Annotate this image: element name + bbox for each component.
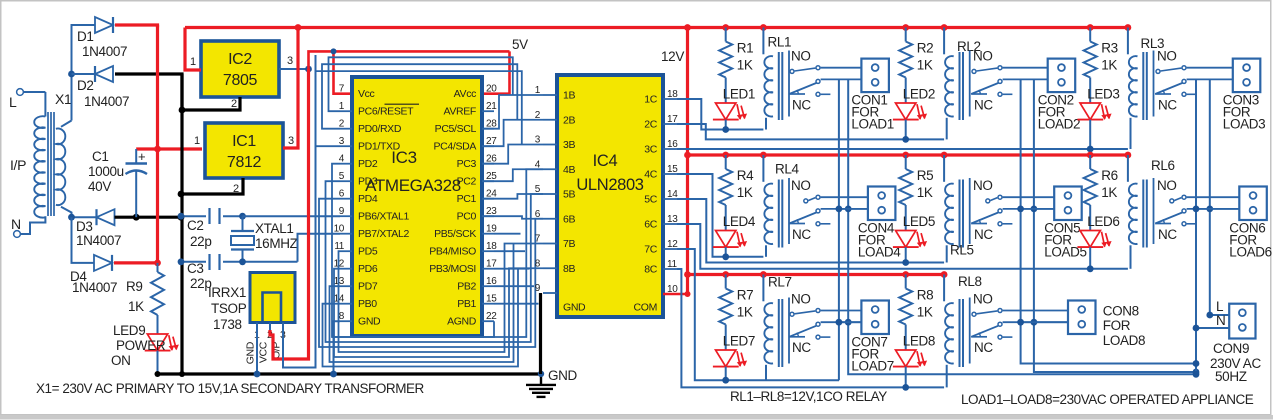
svg-text:D1: D1 <box>77 29 94 44</box>
svg-text:NO: NO <box>791 178 811 193</box>
wire D2 cathode to black bus <box>115 74 182 110</box>
node IRRX1 gnd <box>254 371 261 378</box>
terminal N <box>11 216 21 237</box>
svg-text:NC: NC <box>792 340 811 355</box>
svg-text:PD6: PD6 <box>358 263 378 275</box>
node LED7 bottom <box>722 377 729 384</box>
wire secondary top to D1/D2 node <box>61 121 72 127</box>
capacitor C1 <box>88 149 147 217</box>
svg-text:1N4007: 1N4007 <box>76 233 121 248</box>
transformer X1 core <box>48 112 54 216</box>
svg-text:PC5/SCL: PC5/SCL <box>435 123 477 135</box>
svg-text:IC4: IC4 <box>593 152 618 170</box>
relay RL2 coil <box>944 28 981 140</box>
node RL1 top <box>760 24 767 31</box>
capacitor C2 <box>181 208 243 249</box>
IC2 pin 1 wire <box>185 28 201 71</box>
svg-text:I/P: I/P <box>10 157 26 173</box>
wire bundle IC3 pins under chip <box>319 164 543 367</box>
wire ULN 7C to relay module <box>677 249 839 380</box>
wire IC3 AGND <box>332 321 494 337</box>
node +V at D4 <box>154 260 161 267</box>
svg-text:7805: 7805 <box>223 72 258 89</box>
node LED4 bottom <box>722 253 729 260</box>
svg-text:NO: NO <box>973 178 993 193</box>
regulator IC1 7812 <box>205 123 283 178</box>
svg-text:L: L <box>9 94 17 110</box>
resistor R9 <box>126 263 164 315</box>
svg-text:GND: GND <box>548 368 578 383</box>
svg-text:IRRX1: IRRX1 <box>208 285 246 300</box>
svg-text:22p: 22p <box>190 234 211 249</box>
label 5V <box>512 37 528 52</box>
wire IC3 GND <box>334 321 341 374</box>
resistor R4 <box>719 155 754 205</box>
diode D4 <box>70 255 117 295</box>
wire RL7 NO to CON7 <box>821 310 862 312</box>
wire secondary bottom to D3 <box>61 207 97 217</box>
svg-text:11: 11 <box>667 259 677 270</box>
LED3 <box>1077 78 1119 150</box>
svg-text:LED2: LED2 <box>903 87 935 102</box>
svg-text:PC2: PC2 <box>457 176 477 188</box>
wire RL4 NO to CON4 <box>821 196 868 198</box>
svg-text:ULN2803: ULN2803 <box>576 176 643 194</box>
svg-text:PB6/XTAL1: PB6/XTAL1 <box>358 211 409 223</box>
node R7 top <box>722 271 729 278</box>
svg-text:PD2: PD2 <box>358 158 378 170</box>
svg-text:LOAD7: LOAD7 <box>851 359 894 374</box>
wire L to transformer <box>24 91 46 93</box>
LED1 <box>713 78 755 130</box>
relay RL3 contacts <box>1154 49 1197 117</box>
regulator IC2 7805 <box>201 41 279 97</box>
svg-text:LED4: LED4 <box>723 214 756 229</box>
svg-text:LOAD8: LOAD8 <box>1103 333 1146 348</box>
svg-text:XTAL1: XTAL1 <box>255 221 294 236</box>
node rail at IC1 output <box>295 24 302 31</box>
svg-text:AVcc: AVcc <box>454 88 476 100</box>
wire RL3 pole to CON3 <box>1187 78 1233 80</box>
svg-text:GND: GND <box>563 302 586 314</box>
svg-text:RL4: RL4 <box>775 162 800 177</box>
svg-text:PB3/MOSI: PB3/MOSI <box>429 263 476 275</box>
relay RL4 coil <box>763 155 799 257</box>
node R9 gnd <box>155 371 161 377</box>
wire CON6 pole join <box>1193 206 1240 213</box>
resistor R7 <box>719 275 753 325</box>
svg-text:PB0: PB0 <box>358 298 377 310</box>
svg-text:3B: 3B <box>563 139 575 151</box>
svg-text:4B: 4B <box>563 164 575 176</box>
diode D3 <box>76 209 121 248</box>
svg-text:D2: D2 <box>77 78 94 93</box>
wire load drop 2b <box>1031 79 1200 375</box>
svg-text:IC2: IC2 <box>228 51 252 68</box>
svg-text:LED3: LED3 <box>1087 87 1119 102</box>
diode D1 <box>77 17 127 59</box>
svg-text:CON9: CON9 <box>1213 341 1249 356</box>
svg-text:R5: R5 <box>917 168 934 183</box>
svg-text:NC: NC <box>1158 227 1177 242</box>
wire 5V to IRRX1 VCC <box>270 69 309 359</box>
note relay <box>730 389 887 404</box>
svg-text:4: 4 <box>535 159 541 170</box>
svg-text:LED8: LED8 <box>903 334 935 349</box>
resistor R3 <box>1084 28 1118 78</box>
svg-text:7C: 7C <box>644 244 657 256</box>
svg-text:2B: 2B <box>563 114 575 126</box>
connector CON7 <box>851 301 894 374</box>
IR receiver IRRX1 TSOP1738 <box>208 273 295 333</box>
svg-text:NO: NO <box>791 49 811 64</box>
wire load drop 1a <box>838 79 840 380</box>
wire node to D1 <box>72 25 96 121</box>
relay RL6 contacts <box>1154 178 1197 244</box>
wire RL5 NO to CON5 <box>1003 196 1055 198</box>
node C2 xtal <box>239 213 246 220</box>
wire RL5 pole to CON5 <box>1003 208 1055 210</box>
wire D3 cathode black <box>115 216 182 219</box>
svg-text:12: 12 <box>667 239 678 250</box>
wire ULN 5C to relay module <box>677 199 944 263</box>
svg-text:RL6: RL6 <box>1151 158 1175 173</box>
svg-text:5: 5 <box>535 184 541 195</box>
5V supply line <box>309 51 510 69</box>
relay RL4 contacts <box>789 178 830 244</box>
svg-text:12V: 12V <box>661 49 684 64</box>
12V rail row3 <box>684 271 945 278</box>
resistor R8 <box>899 275 933 325</box>
node RL5 top <box>941 152 948 159</box>
connector CON6 <box>1229 187 1272 260</box>
relay RL3 coil <box>1128 28 1164 150</box>
relay RL8 contacts <box>970 292 1013 364</box>
svg-text:2: 2 <box>535 110 541 121</box>
wire RL7 pole to CON7 <box>821 321 862 323</box>
capacitor C3 <box>181 254 298 291</box>
svg-text:3: 3 <box>287 55 293 67</box>
svg-text:N: N <box>1216 313 1225 328</box>
svg-text:1K: 1K <box>917 58 933 73</box>
svg-text:7: 7 <box>535 234 541 245</box>
svg-text:X1= 230V AC PRIMARY TO 15V,1A: X1= 230V AC PRIMARY TO 15V,1A SECONDARY … <box>36 381 425 396</box>
wire C2 to IC3 pin9 <box>243 215 341 217</box>
svg-text:7: 7 <box>339 84 345 95</box>
svg-text:R7: R7 <box>737 288 754 303</box>
IRRX1 pin stubs <box>254 323 286 342</box>
node IC1 pin2 gnd <box>178 191 185 198</box>
relay RL7 contacts <box>789 292 830 364</box>
relay RL1 coil <box>763 28 791 130</box>
wire D1 cathode to +V corner <box>115 25 158 28</box>
wire D4 cathode red <box>114 261 158 264</box>
label I/P <box>10 157 26 173</box>
svg-text:R3: R3 <box>1101 41 1118 56</box>
svg-text:NC: NC <box>974 340 993 355</box>
svg-text:PC0: PC0 <box>457 211 477 223</box>
svg-text:ATMEGA328: ATMEGA328 <box>365 176 461 195</box>
svg-text:NO: NO <box>973 292 993 307</box>
ground <box>526 368 578 397</box>
node RL3 top <box>1125 24 1132 31</box>
wire CON7 pole join <box>836 319 862 326</box>
node R8 top <box>902 271 909 278</box>
svg-text:7B: 7B <box>563 238 575 250</box>
svg-text:GND: GND <box>358 316 381 328</box>
transformer X1 primary coil <box>34 92 45 218</box>
ground bus vertical <box>180 74 183 374</box>
LED9 power on <box>111 315 179 374</box>
wire load drop 3b <box>1206 79 1213 315</box>
wire RL1 NO to CON1 <box>821 67 862 69</box>
svg-text:18: 18 <box>667 89 678 100</box>
svg-text:2: 2 <box>231 98 237 110</box>
IC3 pin stubs and numbers <box>334 84 498 323</box>
node R1 top <box>722 24 729 31</box>
svg-text:16: 16 <box>667 139 678 150</box>
svg-text:CON8: CON8 <box>1103 304 1139 319</box>
connector CON5 <box>1044 187 1087 260</box>
connector CON4 <box>858 187 901 260</box>
IC2 pin 3 wire <box>279 55 309 69</box>
svg-text:NC: NC <box>974 227 993 242</box>
svg-text:NO: NO <box>973 49 993 64</box>
svg-text:PD4: PD4 <box>358 193 378 205</box>
svg-text:PC6/RESET: PC6/RESET <box>358 106 414 118</box>
svg-text:3: 3 <box>535 135 541 146</box>
svg-text:5V: 5V <box>512 37 528 52</box>
svg-text:LOAD1: LOAD1 <box>851 117 894 132</box>
svg-text:7812: 7812 <box>227 154 262 171</box>
wire CON4 pole join <box>836 206 869 213</box>
svg-text:RL1: RL1 <box>768 35 792 50</box>
svg-text:8: 8 <box>535 258 541 269</box>
wire 5V to IC3 Vcc <box>334 51 353 93</box>
svg-text:RL5: RL5 <box>950 243 974 258</box>
12V rail row2 <box>684 152 1129 159</box>
IRRX1 pin names <box>245 341 283 364</box>
svg-text:1738: 1738 <box>213 317 242 332</box>
wire bundle IC3 pins 1-3 (top) <box>316 57 522 146</box>
wire load drop 1b <box>845 79 1196 374</box>
svg-text:Vcc: Vcc <box>358 88 375 100</box>
svg-text:NO: NO <box>1157 49 1177 64</box>
svg-text:N: N <box>11 216 21 232</box>
wire gnd to ULN GND pin <box>539 293 542 374</box>
wire IRRX1 output <box>283 55 316 368</box>
wire ladder IC3 PC5-PC0 to ULN <box>482 95 543 219</box>
svg-text:10: 10 <box>334 224 345 235</box>
svg-text:FOR: FOR <box>1103 318 1131 333</box>
svg-text:22: 22 <box>486 311 497 322</box>
wire ULN COM to 12V <box>663 291 691 297</box>
label X1 <box>55 91 72 107</box>
node C2 gnd <box>178 213 185 220</box>
connector CON3 <box>1223 59 1266 132</box>
svg-text:1K: 1K <box>1101 58 1117 73</box>
diode D2 <box>77 66 129 109</box>
svg-text:VCC: VCC <box>258 341 270 363</box>
svg-text:R2: R2 <box>917 41 934 56</box>
svg-text:1K: 1K <box>737 58 753 73</box>
svg-text:PB2: PB2 <box>457 281 476 293</box>
terminal L <box>9 89 23 110</box>
svg-text:PB5/SCK: PB5/SCK <box>434 228 476 240</box>
wire +V rail vertical <box>156 25 159 263</box>
IC3 pin names <box>358 88 477 328</box>
label 12V <box>661 49 684 64</box>
svg-text:4C: 4C <box>644 169 657 181</box>
svg-text:NO: NO <box>791 292 811 307</box>
svg-text:1K: 1K <box>917 185 933 200</box>
crystal XTAL1 <box>231 216 298 262</box>
wire C3 to IC3 pin10 <box>298 234 341 262</box>
relay RL8 coil <box>944 274 982 387</box>
node RL2 top <box>941 24 948 31</box>
svg-text:21: 21 <box>486 101 497 112</box>
wire RL3 NO to CON3 <box>1187 67 1233 69</box>
svg-text:LOAD3: LOAD3 <box>1223 117 1266 132</box>
connector CON9 <box>1210 304 1261 384</box>
wire RL4 pole to CON4 <box>821 208 868 210</box>
svg-text:NC: NC <box>974 97 993 112</box>
IC1 pin 3 wire <box>283 28 298 149</box>
svg-text:ON: ON <box>111 353 131 368</box>
svg-text:PD0/RXD: PD0/RXD <box>358 123 402 135</box>
wire ULN 3C to relay module <box>677 148 1128 150</box>
svg-text:LOAD2: LOAD2 <box>1038 117 1081 132</box>
svg-text:IC1: IC1 <box>232 133 256 150</box>
node secondary bottom <box>68 214 75 221</box>
wire ULN 6C to relay module <box>677 224 1128 269</box>
node bus corner <box>179 371 185 377</box>
LED6 <box>1077 205 1119 269</box>
node C3 xtal <box>239 258 246 265</box>
svg-text:GND: GND <box>245 341 257 364</box>
svg-text:D3: D3 <box>76 219 93 234</box>
svg-text:LOAD6: LOAD6 <box>1229 245 1272 260</box>
svg-text:PC3: PC3 <box>457 158 477 170</box>
resistor R6 <box>1084 155 1118 205</box>
LED5 <box>893 205 935 263</box>
svg-text:R6: R6 <box>1101 168 1118 183</box>
node LED2 bottom <box>902 136 909 143</box>
svg-text:R8: R8 <box>917 288 934 303</box>
node main gnd <box>538 371 544 377</box>
node RL7 top <box>760 271 767 278</box>
connector CON8 <box>1068 301 1145 349</box>
node RL4 top <box>760 152 767 159</box>
wire RL8 pole to CON8 <box>1003 321 1068 323</box>
svg-text:RL8: RL8 <box>958 274 982 289</box>
wire N to transformer <box>21 216 46 234</box>
12V feeder vertical <box>686 28 689 295</box>
svg-text:6: 6 <box>535 209 541 220</box>
svg-text:+: + <box>138 149 145 164</box>
svg-text:8C: 8C <box>644 264 657 276</box>
svg-text:PD3: PD3 <box>358 176 378 188</box>
svg-text:1K: 1K <box>737 185 753 200</box>
svg-text:1K: 1K <box>128 299 144 314</box>
wire RL1 pole to CON1 <box>821 78 862 80</box>
svg-text:R4: R4 <box>737 168 754 183</box>
svg-text:1N4007: 1N4007 <box>72 280 117 295</box>
svg-text:1K: 1K <box>917 305 933 320</box>
svg-text:PB4/MISO: PB4/MISO <box>429 246 476 258</box>
IC1 pin 1 label <box>194 135 200 147</box>
svg-text:PC4/SDA: PC4/SDA <box>434 141 477 153</box>
svg-text:LED6: LED6 <box>1087 214 1119 229</box>
svg-text:2: 2 <box>233 183 239 195</box>
wire +V to IC1 pin1 <box>136 147 202 150</box>
relay RL1 contacts <box>789 49 830 117</box>
svg-text:1C: 1C <box>644 94 657 106</box>
IC1 pin 2 wire <box>181 178 243 195</box>
svg-text:R9: R9 <box>126 279 143 294</box>
svg-text:1K: 1K <box>1101 185 1117 200</box>
node RL8 top <box>941 271 948 278</box>
svg-text:RL1–RL8=12V,1CO RELAY: RL1–RL8=12V,1CO RELAY <box>730 389 887 404</box>
svg-text:AVREF: AVREF <box>444 106 476 118</box>
wire RL8 NO to CON8 <box>1003 310 1068 312</box>
wire RL2 NO to CON2 <box>1003 67 1048 69</box>
relay RL5 coil <box>944 155 974 263</box>
IC2 pin 2 wire <box>182 97 240 110</box>
node LED3 bottom <box>1087 146 1094 153</box>
svg-text:TSOP: TSOP <box>211 301 247 316</box>
connector CON2 <box>1038 59 1081 132</box>
svg-text:1B: 1B <box>563 90 575 102</box>
node 5V vcc tap <box>331 48 337 54</box>
svg-text:5C: 5C <box>644 194 657 206</box>
wire ULN 2C to relay module <box>677 124 944 139</box>
svg-text:NC: NC <box>792 97 811 112</box>
node 5V <box>305 66 312 73</box>
node RL6 top <box>1125 152 1132 159</box>
svg-text:PB1: PB1 <box>457 298 476 310</box>
svg-text:3: 3 <box>288 135 294 147</box>
wire 5V to IC3 AVcc <box>482 51 510 93</box>
svg-text:1: 1 <box>190 56 196 68</box>
node D3 at bus <box>178 214 185 221</box>
note transformer <box>36 381 425 396</box>
wire RL2 pole to CON2 <box>1003 78 1048 80</box>
node R6 top <box>1087 152 1094 159</box>
svg-text:1: 1 <box>535 85 541 96</box>
svg-text:9: 9 <box>339 206 345 217</box>
svg-text:LED9: LED9 <box>113 323 145 338</box>
LED7 <box>713 325 755 381</box>
svg-text:6B: 6B <box>563 213 575 225</box>
svg-text:PC1: PC1 <box>457 193 477 205</box>
wire D2 anode <box>72 73 96 75</box>
ground bus bottom <box>158 372 542 375</box>
svg-text:1N4007: 1N4007 <box>84 94 129 109</box>
svg-text:13: 13 <box>667 214 678 225</box>
svg-text:3C: 3C <box>644 144 657 156</box>
svg-text:50HZ: 50HZ <box>1215 369 1247 384</box>
node LED5 bottom <box>902 259 909 266</box>
svg-text:1: 1 <box>194 135 200 147</box>
svg-text:16MHZ: 16MHZ <box>255 236 298 251</box>
LED4 <box>713 205 756 257</box>
svg-text:NO: NO <box>1157 178 1177 193</box>
note loads <box>961 392 1254 407</box>
svg-text:NC: NC <box>1158 97 1177 112</box>
connector CON1 <box>851 59 894 132</box>
svg-text:NC: NC <box>792 227 811 242</box>
